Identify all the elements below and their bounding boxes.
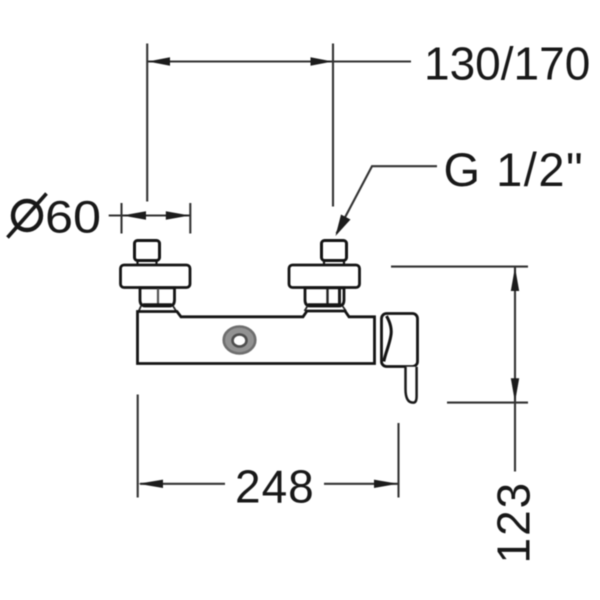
svg-text:60: 60 bbox=[45, 193, 101, 243]
svg-text:248: 248 bbox=[235, 461, 315, 513]
svg-text:123: 123 bbox=[488, 481, 540, 564]
svg-text:G 1/2": G 1/2" bbox=[444, 143, 585, 196]
svg-text:130/170: 130/170 bbox=[424, 38, 590, 90]
